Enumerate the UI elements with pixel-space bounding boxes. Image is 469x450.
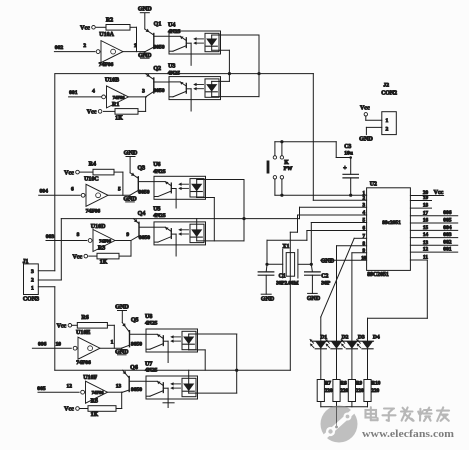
wire R5 to node bbox=[116, 392, 122, 408]
wire U2 pin5 net bbox=[311, 223, 366, 265]
wire D3 cathode bbox=[351, 349, 353, 380]
power Vcc pullup R3 bbox=[72, 254, 87, 260]
wire pin9 to D3 bbox=[351, 253, 353, 341]
transistor Q6 8050 bbox=[123, 365, 138, 392]
resistor R1 1K bbox=[112, 102, 138, 121]
transistor Q4 8050 bbox=[131, 211, 145, 241]
transistor Q2 8050 bbox=[146, 66, 162, 97]
wire R7 bottom bbox=[320, 402, 322, 407]
labels right port signals 006-001 bbox=[443, 210, 452, 252]
crystal X1 bbox=[282, 244, 298, 278]
wire U8 LED cathode bbox=[189, 344, 206, 370]
wire U7 LED anode riser bbox=[188, 370, 190, 383]
wire bus right side bbox=[258, 35, 260, 97]
led D2 bbox=[326, 335, 349, 349]
wire U5 LED cathode bbox=[196, 237, 198, 241]
power Vcc pullup R2 bbox=[80, 26, 95, 32]
capacitor C3 10u bbox=[343, 144, 358, 178]
connector J2 CON2 bbox=[381, 82, 397, 134]
wire J1 pin1 bbox=[38, 286, 55, 288]
wire Vcc to R5 bbox=[80, 408, 88, 410]
wire U5 base out bbox=[175, 245, 177, 256]
resistor R4 bbox=[89, 162, 114, 175]
wire input 002 bbox=[54, 51, 95, 53]
resistor R5 1K bbox=[88, 399, 116, 419]
node junction rail2-U6 bbox=[242, 217, 245, 220]
wire pin11 to D4 bbox=[368, 260, 428, 341]
wire U3 base out bbox=[190, 100, 192, 111]
wire X1 left bbox=[267, 263, 283, 265]
wire input 005 bbox=[38, 391, 79, 393]
wire J2 pin1 bbox=[366, 116, 382, 120]
wire D4 cathode bbox=[367, 349, 369, 380]
node C3 to pin1 bbox=[349, 194, 352, 197]
inverter U10F 74F06 bbox=[67, 375, 122, 403]
transistor Q3 8050 bbox=[130, 165, 145, 195]
wire U2 pin8 net bbox=[337, 245, 367, 247]
wire C3 top step bbox=[336, 142, 352, 175]
wire rail3 riser to pin4 bbox=[289, 232, 291, 370]
inverter U10E 74F06 bbox=[73, 337, 113, 366]
wire GND to Q5 collector bbox=[121, 311, 123, 323]
wire Q4 base to U5 bbox=[139, 226, 154, 228]
ground GND above Q1 bbox=[138, 6, 152, 13]
wire U8 base out bbox=[167, 352, 169, 363]
wire to U3 LED anode bbox=[212, 81, 230, 86]
wire rail2 bbox=[61, 218, 299, 220]
optocoupler U5 4N25 bbox=[0, 0, 206, 245]
ic U2 89C2051 bbox=[367, 182, 411, 278]
wire C3 bottom bbox=[350, 178, 352, 195]
wire rail1 bbox=[55, 73, 313, 75]
optocoupler U7 4N25 bbox=[0, 0, 198, 399]
wire U10B output node bbox=[129, 96, 147, 98]
power Vcc pullup R5 bbox=[64, 407, 79, 413]
switch K PW pushbutton bbox=[267, 156, 293, 179]
wire Vcc to R1 bbox=[104, 110, 116, 112]
wire U10A output node bbox=[123, 51, 145, 53]
wire U2 pin10 net bbox=[321, 259, 367, 261]
wire Vcc to R3 bbox=[89, 255, 97, 257]
ground at U10A output bbox=[138, 52, 152, 59]
wire GND to Q1 collector bbox=[144, 13, 146, 29]
ground GND C2 bbox=[307, 275, 321, 302]
wire pin8 to D2 bbox=[336, 246, 338, 341]
wire J2 pin2 to GND bbox=[366, 127, 381, 134]
wire Q6 base to U7 bbox=[129, 380, 146, 382]
wire U6 base out bbox=[175, 199, 177, 208]
optocoupler U6 4N25 bbox=[153, 162, 205, 199]
wire U2 pin6 net bbox=[267, 231, 367, 265]
labels U2 left pin numbers 1-10 bbox=[361, 190, 367, 261]
wire U10C output node bbox=[108, 194, 130, 196]
wire Q3 base to U6 bbox=[138, 181, 154, 183]
power Vcc J2 bbox=[360, 105, 370, 116]
wire Q1 base to U4 bbox=[154, 35, 169, 37]
wire resistor ground bus bbox=[321, 407, 368, 427]
wire U4 LED cathode bbox=[212, 46, 230, 81]
node junction rail1-U4 bbox=[228, 72, 231, 75]
wire U5 LED anode riser bbox=[196, 219, 198, 230]
svg-text:www.elecfans.com: www.elecfans.com bbox=[362, 428, 454, 440]
connector J1 CON3 bbox=[23, 259, 40, 302]
led D1 bbox=[310, 335, 328, 349]
wire U2 pin7 net bbox=[354, 237, 366, 239]
wire J1 pin2 riser bbox=[60, 219, 62, 280]
wire U6 LED cathode bbox=[197, 192, 215, 241]
wire to U7 LED cathode bottom bbox=[189, 392, 237, 394]
wire U2 pin3 net bbox=[300, 206, 367, 208]
wire pin7 diagonal to D1 bbox=[321, 238, 354, 341]
wire D1 cathode bbox=[320, 349, 322, 380]
inverter U10C 74F06 bbox=[71, 184, 121, 214]
wire Vcc to R6 bbox=[72, 324, 78, 326]
wire Q2 base to U3 bbox=[154, 81, 169, 83]
wire Vcc to R2 bbox=[96, 26, 106, 28]
wire U7 base out bbox=[163, 399, 174, 408]
resistor R8 220 bbox=[333, 380, 349, 402]
node resistor bus bbox=[335, 426, 338, 429]
node switch bottom junction bbox=[280, 194, 283, 197]
inverter U10A 74F06 bbox=[83, 41, 137, 69]
wire rail2 to U2 pin3 step bbox=[299, 207, 301, 218]
wire J1 pin3 riser bbox=[54, 74, 56, 271]
ground GND C1 bbox=[261, 275, 275, 302]
wire U2 pin9 net bbox=[352, 252, 367, 254]
node X1 right junction bbox=[310, 263, 313, 266]
resistor R7 220 bbox=[317, 380, 333, 402]
wire input 004 bbox=[39, 194, 80, 196]
resistor R10 220 bbox=[364, 380, 381, 402]
wire U8 LED anode bbox=[189, 334, 237, 393]
resistor R2 bbox=[106, 18, 130, 31]
resistor R3 1K bbox=[97, 245, 119, 265]
wire GND to Q3 collector bbox=[129, 157, 131, 173]
wire switch top rail bbox=[275, 142, 336, 156]
ground at U10C output bbox=[123, 195, 137, 202]
inverter U10B 74F06 bbox=[92, 78, 145, 108]
wire J1 pin2 bbox=[38, 279, 61, 281]
wire R4 to node bbox=[114, 172, 123, 195]
ground GND above Q3 bbox=[124, 149, 138, 156]
wire U5 loop bottom bbox=[197, 240, 244, 242]
ground GND above Q5 bbox=[115, 303, 129, 310]
wire U10E output node bbox=[100, 347, 122, 349]
power Vcc pullup R1 bbox=[87, 110, 102, 116]
resistor R6 bbox=[77, 315, 107, 328]
wire input 001 bbox=[69, 96, 102, 98]
wire U10D output node bbox=[115, 240, 131, 242]
wire U2 pin1 net bbox=[275, 194, 367, 196]
wire R1 to node bbox=[138, 97, 146, 112]
capacitor C1 30P bbox=[258, 264, 298, 286]
wire R3 to node bbox=[119, 241, 131, 257]
capacitor C2 30P bbox=[305, 264, 331, 286]
transistor Q5 8050 bbox=[122, 318, 139, 349]
wires U2 right pins with numbers bbox=[410, 190, 457, 261]
wire J1 pin1 dropper bbox=[54, 287, 56, 370]
wire LED anode bus bbox=[312, 340, 374, 342]
optocoupler U8 4N25 bbox=[145, 314, 198, 352]
led D3 bbox=[341, 335, 365, 349]
wire U4 LED anode bbox=[212, 35, 259, 39]
wire rail3 bbox=[55, 369, 290, 371]
wire R8 bottom bbox=[336, 402, 338, 407]
wire switch bottom drops bbox=[275, 179, 282, 195]
power Vcc pullup R4 bbox=[64, 170, 79, 176]
wire R2 drop bbox=[136, 27, 138, 51]
wire U4 base out bbox=[190, 54, 192, 65]
wire D2 cathode bbox=[336, 349, 338, 380]
wire R2 to node bbox=[130, 26, 137, 28]
wire U10F output node bbox=[108, 391, 123, 393]
wire R10 bottom bbox=[367, 402, 369, 407]
wire U3 LED cathode bbox=[212, 92, 259, 97]
resistor R9 220 bbox=[348, 380, 364, 402]
optocoupler U3 4N25 bbox=[0, 0, 221, 100]
wire R9 bottom bbox=[351, 402, 353, 407]
power Vcc pullup R6 bbox=[57, 324, 72, 330]
wire Q5 base to U8 bbox=[130, 333, 147, 335]
transistor Q1 8050 bbox=[145, 22, 162, 52]
inverter U10D 74F06 bbox=[77, 224, 130, 252]
wire J1 pin3 bbox=[38, 270, 55, 272]
wire input 006 bbox=[32, 347, 71, 349]
wire input 003 bbox=[46, 240, 87, 242]
optocoupler U4 4N25 bbox=[168, 23, 221, 55]
node X1 left junction bbox=[265, 263, 268, 266]
node junction rail3-U8 bbox=[235, 369, 238, 372]
wire U2 pin2 net bbox=[313, 74, 366, 201]
wire U7 LED cathode bbox=[188, 391, 190, 393]
ground at U10E output bbox=[115, 348, 129, 355]
wire X1 right bbox=[298, 263, 311, 265]
wire U6 LED anode bbox=[197, 180, 244, 241]
node switch top junction bbox=[280, 140, 283, 143]
wire R6 to node bbox=[107, 325, 114, 348]
wire U2 pin4 net bbox=[290, 215, 366, 232]
node junction rail1 right bbox=[257, 72, 260, 75]
wire Vcc to R4 bbox=[80, 171, 93, 173]
led D4 bbox=[357, 335, 380, 349]
